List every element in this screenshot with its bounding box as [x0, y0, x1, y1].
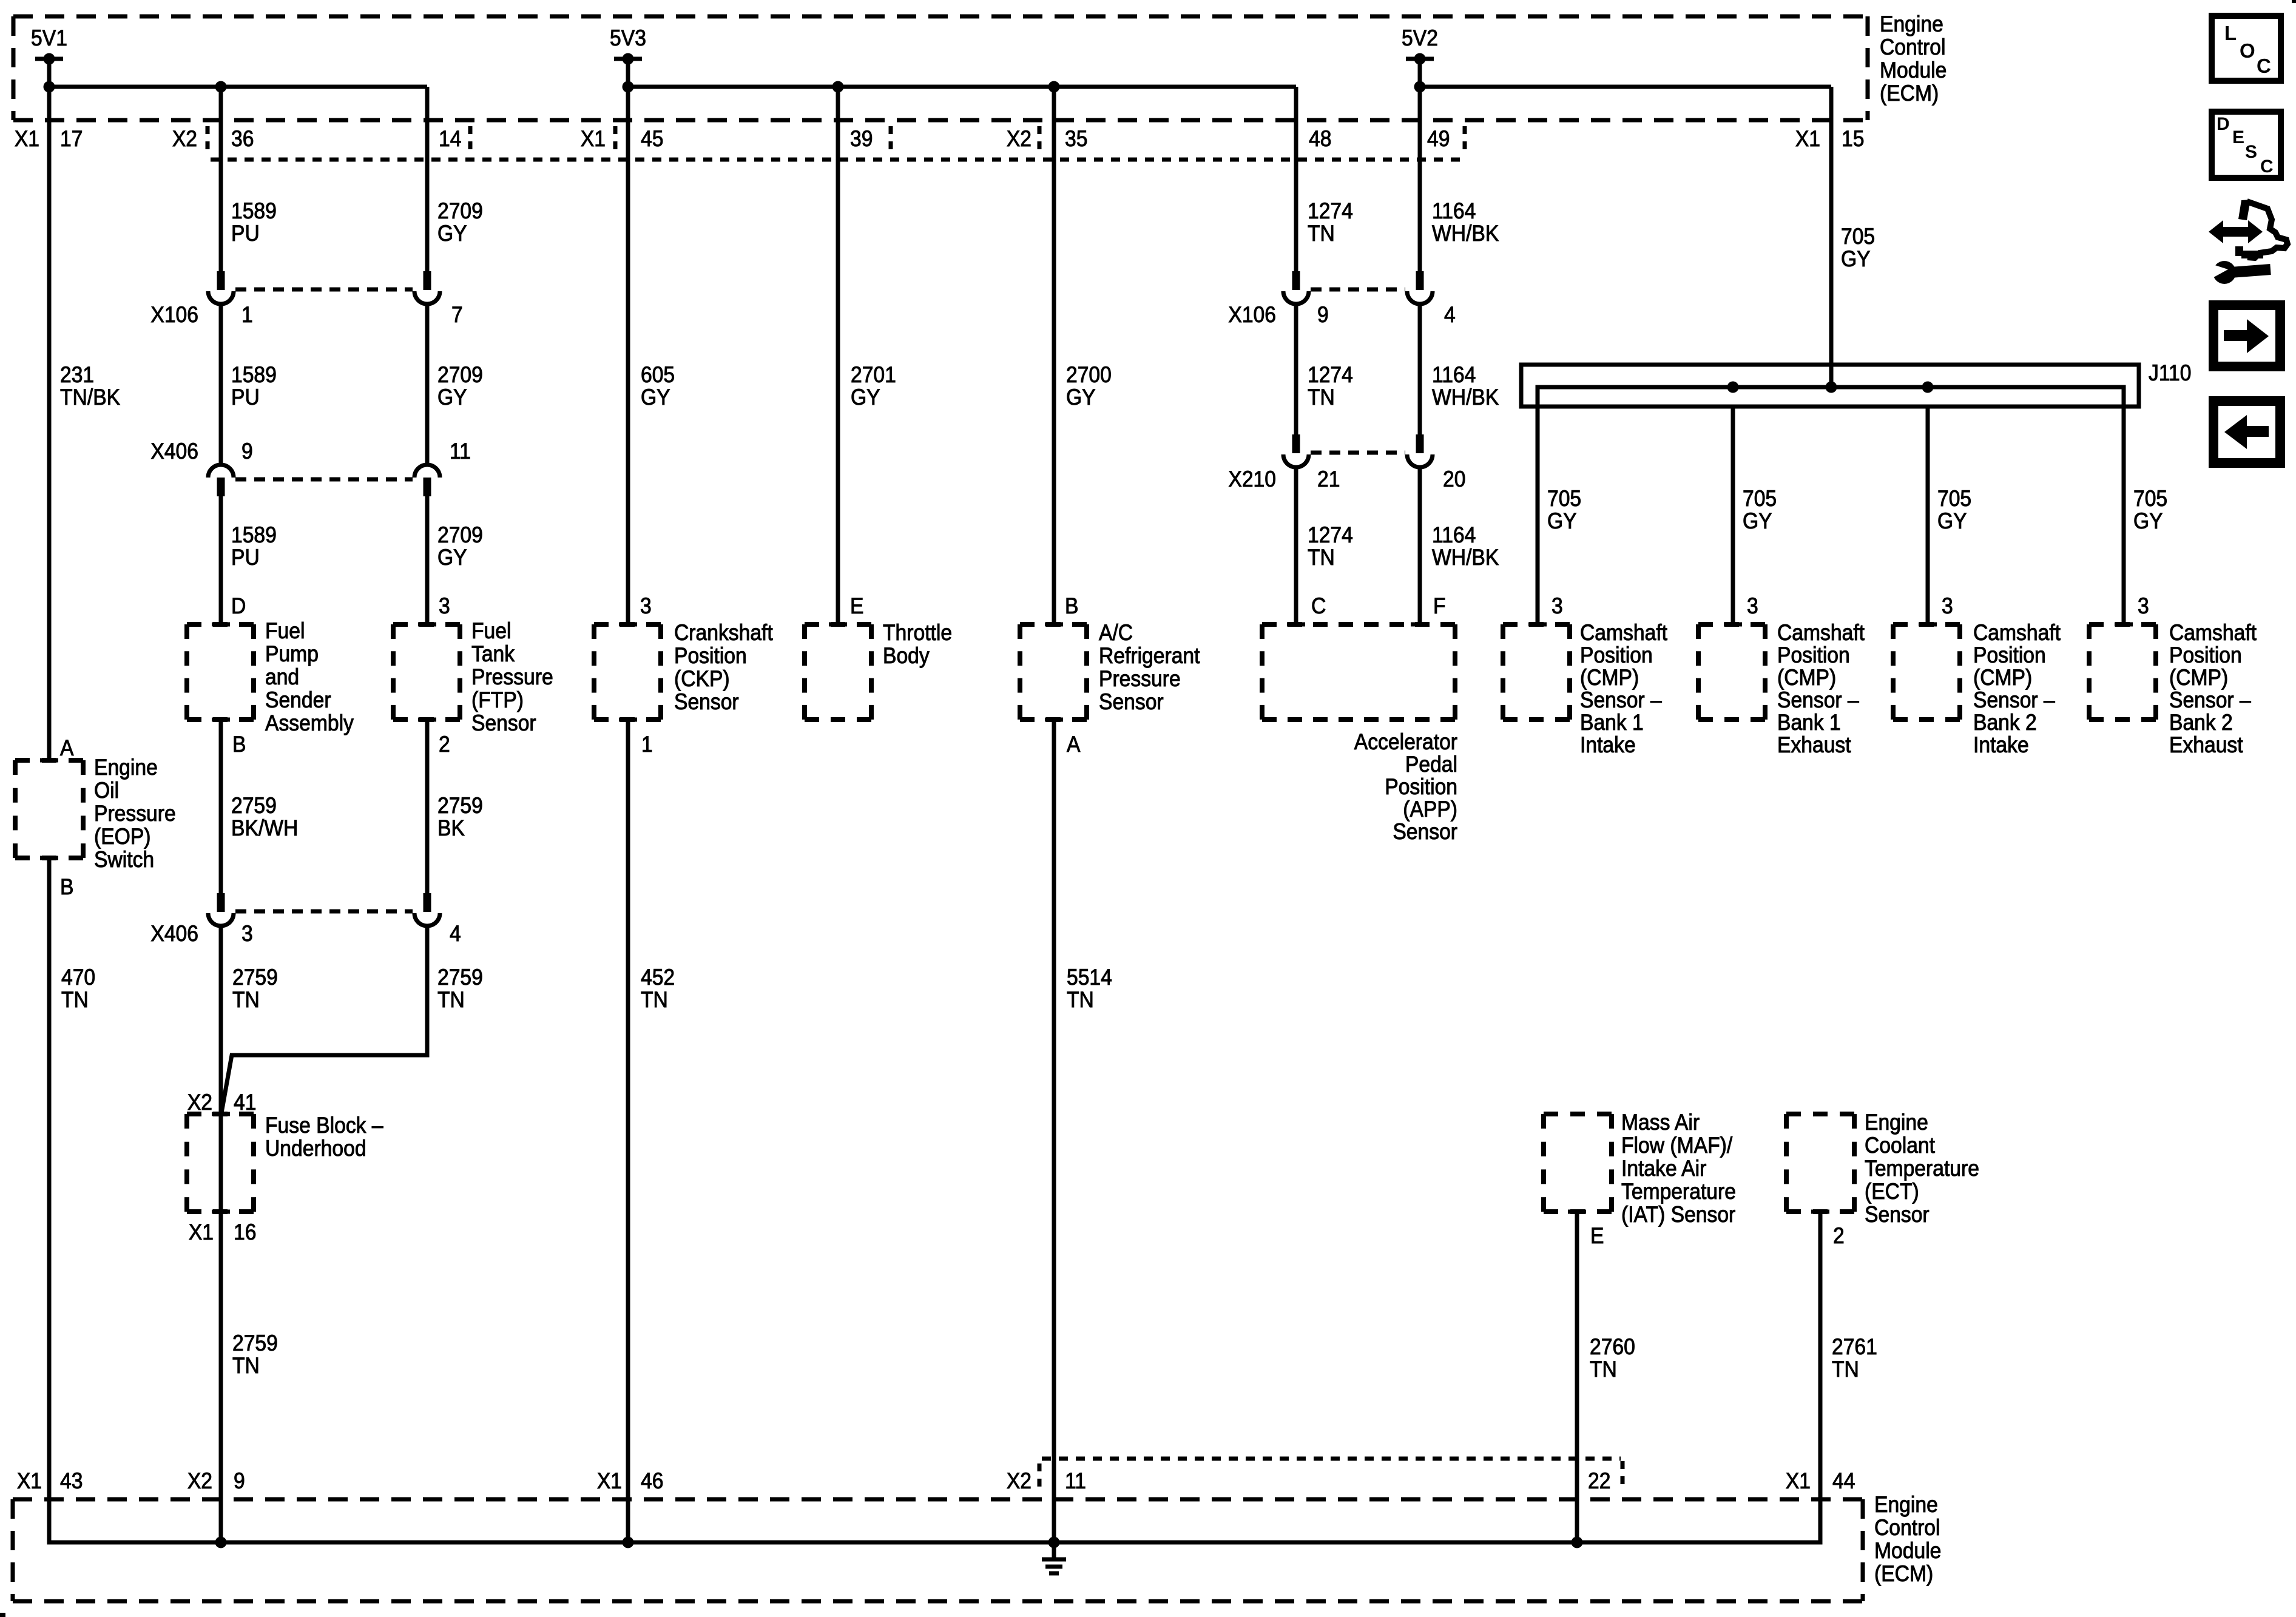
- svg-text:Position: Position: [1385, 775, 1457, 800]
- wire 705 GY (J110 to CMP sensor bank 1 exhaust): [1731, 407, 1735, 624]
- svg-text:Engine: Engine: [94, 755, 158, 780]
- svg-text:605: 605: [641, 363, 675, 388]
- svg-text:22: 22: [1588, 1469, 1610, 1494]
- svg-text:E: E: [2232, 127, 2244, 147]
- svg-text:GY: GY: [437, 385, 467, 410]
- svg-text:(EOP): (EOP): [94, 825, 151, 849]
- svg-text:Sensor: Sensor: [1099, 690, 1164, 715]
- svg-text:(CMP): (CMP): [1973, 666, 2032, 690]
- label 2709 GY (middle): [437, 363, 483, 410]
- svg-text:9: 9: [241, 439, 253, 464]
- svg-text:C: C: [1311, 594, 1326, 619]
- J110 internal bus: [1538, 382, 2124, 409]
- svg-text:GY: GY: [641, 385, 670, 410]
- svg-text:2701: 2701: [851, 363, 896, 388]
- label 705 GY (CMP sensor bank 2 intake): [1937, 487, 1971, 534]
- wire 231 TN/BK (ECM X1-17 to EOP A): [47, 87, 52, 760]
- ground symbol: [1042, 1542, 1066, 1573]
- throttle body dashed box: [805, 624, 871, 720]
- svg-text:TN: TN: [1832, 1357, 1859, 1382]
- connector X106 pin 7 label: [451, 303, 463, 328]
- svg-text:and: and: [265, 665, 299, 690]
- CMP sensor bank 2 intake label: [1973, 621, 2061, 758]
- wire 5514 TN (A/C A to ECM X2-11 and ground): [1052, 720, 1056, 1542]
- svg-text:(IAT) Sensor: (IAT) Sensor: [1621, 1203, 1735, 1227]
- svg-text:Exhaust: Exhaust: [2169, 733, 2243, 758]
- svg-text:36: 36: [231, 127, 254, 152]
- wire 1274 TN (X210-21 to APP C): [1294, 467, 1298, 624]
- svg-text:X1: X1: [15, 127, 39, 152]
- svg-text:Position: Position: [1973, 643, 2046, 668]
- svg-text:1589: 1589: [231, 199, 277, 224]
- svg-text:Control: Control: [1874, 1516, 1940, 1541]
- svg-text:TN: TN: [1067, 988, 1094, 1013]
- ECM connector label X2-36: [172, 127, 254, 152]
- splice pack J110 housing: [1521, 365, 2139, 407]
- svg-text:Crankshaft: Crankshaft: [674, 621, 773, 646]
- pin A label (A/C): [1067, 732, 1081, 757]
- svg-text:X1: X1: [189, 1220, 214, 1245]
- ECM connector label X2-35: [1007, 127, 1088, 152]
- svg-text:J110: J110: [2149, 361, 2191, 386]
- label 1164 WH/BK (upper): [1432, 199, 1499, 246]
- svg-text:F: F: [1433, 594, 1446, 619]
- svg-text:3: 3: [2138, 594, 2149, 619]
- wire 705 GY (J110 to CMP sensor bank 1 intake): [1536, 407, 1540, 624]
- svg-text:2: 2: [1833, 1224, 1845, 1249]
- svg-text:2709: 2709: [437, 523, 483, 548]
- svg-text:TN: TN: [437, 988, 465, 1013]
- ECM connector label X1-17: [15, 127, 83, 152]
- label 470 TN: [61, 965, 95, 1013]
- label 2701 GY: [851, 363, 896, 410]
- svg-text:7: 7: [451, 303, 463, 328]
- inline connector X106 pin 9: [1283, 271, 1309, 304]
- ECM connector label 14: [439, 127, 461, 152]
- label 705 GY (CMP sensor bank 1 intake): [1547, 487, 1581, 534]
- A/C pressure sensor label: [1099, 621, 1200, 715]
- svg-text:705: 705: [1743, 487, 1777, 511]
- wire 2759 TN (fuse X1-16 to ECM X2-9): [219, 1212, 223, 1542]
- EOP switch dashed box: [15, 760, 83, 858]
- label 1274 TN (middle): [1308, 363, 1353, 410]
- svg-text:Camshaft: Camshaft: [2169, 621, 2257, 646]
- label 1589 PU (upper): [231, 199, 277, 246]
- ECM connector short-dash line: [211, 158, 1465, 162]
- CMP sensor bank 2 intake dashed box: [1893, 624, 1960, 720]
- pin 2 label (ECT): [1833, 1224, 1845, 1249]
- pin A label (EOP): [60, 736, 74, 761]
- pin 2 label (FTP): [439, 732, 450, 757]
- icon DESC box: [2212, 112, 2281, 178]
- wire 470 TN (EOP B to ECM X1-43): [47, 858, 52, 1542]
- label 2761 TN: [1832, 1335, 1877, 1382]
- svg-text:X2: X2: [1007, 1469, 1032, 1494]
- svg-text:Sensor: Sensor: [674, 690, 739, 715]
- wire 2709 GY (ECM 14 to X106-7): [425, 87, 430, 271]
- svg-text:TN: TN: [232, 1354, 260, 1379]
- pin F label (APP): [1433, 594, 1446, 619]
- ECM connector label X2-11: [1007, 1469, 1086, 1494]
- svg-text:WH/BK: WH/BK: [1432, 385, 1499, 410]
- svg-text:Sensor –: Sensor –: [1777, 688, 1859, 713]
- svg-text:2709: 2709: [437, 363, 483, 388]
- wire 2709 GY (X406-11 to FTP 3): [425, 496, 430, 624]
- wire 1589 PU (X106-1 to X406-9): [219, 304, 223, 465]
- wire 705 GY (J110 to CMP sensor bank 2 exhaust): [2122, 407, 2126, 624]
- pin B label (fuel pump): [232, 732, 246, 757]
- svg-text:Module: Module: [1880, 58, 1947, 83]
- inline connector X106 pin 7: [414, 271, 440, 304]
- A/C pressure sensor dashed box: [1020, 624, 1087, 720]
- svg-text:Body: Body: [883, 644, 930, 669]
- svg-text:21: 21: [1317, 467, 1340, 492]
- 5V3 bus wire: [623, 81, 1297, 93]
- svg-text:Throttle: Throttle: [883, 621, 952, 646]
- svg-text:43: 43: [60, 1469, 83, 1494]
- svg-text:Pump: Pump: [265, 642, 319, 667]
- svg-text:Intake Air: Intake Air: [1621, 1156, 1707, 1181]
- svg-text:B: B: [1065, 594, 1078, 619]
- svg-text:A/C: A/C: [1099, 621, 1133, 646]
- svg-text:Sensor –: Sensor –: [1973, 688, 2055, 713]
- svg-text:Sensor: Sensor: [1865, 1203, 1930, 1227]
- svg-text:BK/WH: BK/WH: [231, 816, 298, 841]
- svg-text:(CMP): (CMP): [1580, 666, 1639, 690]
- CMP sensor bank 2 exhaust dashed box: [2089, 624, 2156, 720]
- connector X210 labels: [1228, 467, 1465, 492]
- label 705 GY (feed): [1841, 224, 1875, 272]
- svg-text:Flow (MAF)/: Flow (MAF)/: [1621, 1133, 1732, 1158]
- svg-text:Pedal: Pedal: [1405, 752, 1457, 777]
- wire 1589 PU (ECM X2-36 to X106-1): [219, 87, 223, 271]
- svg-text:3: 3: [640, 594, 652, 619]
- svg-text:Intake: Intake: [1580, 733, 1636, 758]
- svg-text:11: 11: [1065, 1469, 1086, 1494]
- inline connector X210 pin 20: [1407, 434, 1433, 467]
- svg-text:705: 705: [1547, 487, 1581, 511]
- wire 1164 WH/BK (ECM 49 to X106-4): [1418, 87, 1422, 271]
- svg-text:Pressure: Pressure: [94, 802, 176, 826]
- fuse block connector label X1-16: [189, 1220, 257, 1245]
- svg-text:E: E: [850, 594, 863, 619]
- CMP sensor bank 1 intake label: [1580, 621, 1667, 758]
- svg-text:1: 1: [241, 303, 253, 328]
- connector X106 right labels: [1228, 303, 1455, 328]
- wire 705 GY (ECM X1-15 to J110): [1829, 87, 1834, 387]
- svg-text:Pressure: Pressure: [471, 665, 553, 690]
- svg-text:TN: TN: [1590, 1357, 1617, 1382]
- svg-text:B: B: [60, 875, 73, 900]
- wire 1274 TN (ECM 48 to X106-9): [1294, 87, 1298, 271]
- svg-text:41: 41: [234, 1090, 256, 1115]
- svg-text:Accelerator: Accelerator: [1354, 730, 1457, 755]
- label 605 GY: [641, 363, 675, 410]
- label 2759 TN (right): [437, 965, 483, 1013]
- svg-text:X406: X406: [150, 439, 198, 464]
- svg-text:2759: 2759: [231, 794, 277, 819]
- fuel pump label: [265, 619, 354, 736]
- EOP switch label: [94, 755, 176, 873]
- svg-text:(FTP): (FTP): [471, 688, 524, 713]
- svg-text:3: 3: [241, 922, 253, 947]
- svg-text:49: 49: [1427, 127, 1450, 152]
- inline connector X406 pin 3: [208, 893, 234, 926]
- svg-text:Sender: Sender: [265, 688, 331, 713]
- svg-text:20: 20: [1443, 467, 1465, 492]
- svg-text:GY: GY: [2133, 509, 2163, 534]
- pin 3 label (FTP): [439, 594, 450, 619]
- svg-text:9: 9: [1317, 303, 1329, 328]
- ECM connector label X1-45: [581, 127, 664, 152]
- connector X106 right dashed link: [1311, 288, 1405, 292]
- svg-text:1274: 1274: [1308, 363, 1353, 388]
- connector X106 dashed link: [235, 288, 413, 292]
- svg-text:4: 4: [1444, 303, 1456, 328]
- svg-text:GY: GY: [1841, 247, 1871, 272]
- svg-text:35: 35: [1065, 127, 1087, 152]
- svg-text:GY: GY: [1937, 509, 1967, 534]
- ECM connector label X2-9: [187, 1469, 245, 1494]
- svg-text:PU: PU: [231, 545, 260, 570]
- label 2760 TN: [1590, 1335, 1635, 1382]
- svg-text:16: 16: [234, 1220, 256, 1245]
- label 1589 PU (middle): [231, 363, 277, 410]
- CKP sensor label: [674, 621, 773, 715]
- svg-text:3: 3: [439, 594, 450, 619]
- svg-text:X1: X1: [1786, 1469, 1811, 1494]
- svg-text:Bank 2: Bank 2: [2169, 711, 2233, 735]
- svg-text:O: O: [2240, 39, 2255, 62]
- svg-text:1274: 1274: [1308, 199, 1353, 224]
- icon forward arrow box: [2213, 305, 2280, 366]
- CMP sensor bank 1 exhaust label: [1777, 621, 1865, 758]
- APP sensor label: [1354, 730, 1457, 845]
- 5V reference 5V1: [31, 26, 67, 87]
- ECM connector label 39: [850, 127, 873, 152]
- svg-text:5V3: 5V3: [610, 26, 646, 51]
- svg-text:14: 14: [439, 127, 461, 152]
- svg-text:X1: X1: [581, 127, 606, 152]
- connector X406 pin 11 label: [450, 439, 471, 464]
- svg-text:(ECT): (ECT): [1865, 1180, 1919, 1204]
- svg-text:Sensor –: Sensor –: [2169, 688, 2251, 713]
- 5V reference 5V3: [610, 26, 646, 87]
- wire 2759 TN (X406-4 jog to fuse block): [221, 926, 427, 1113]
- label 2759 BK/WH: [231, 794, 298, 841]
- svg-text:4: 4: [450, 922, 461, 947]
- ECT sensor dashed box: [1786, 1114, 1854, 1212]
- svg-text:TN: TN: [1308, 385, 1335, 410]
- label 2759 TN (left): [232, 965, 278, 1013]
- wire 2759 BK/WH (fuel pump B to X406-3): [219, 720, 223, 893]
- fuse block connector label X2-41: [187, 1090, 257, 1115]
- svg-text:Position: Position: [674, 644, 747, 669]
- svg-text:X1: X1: [17, 1469, 42, 1494]
- svg-text:X1: X1: [1795, 127, 1820, 152]
- svg-text:39: 39: [850, 127, 873, 152]
- inline connector X210 pin 21: [1283, 434, 1309, 467]
- svg-text:Tank: Tank: [471, 642, 515, 667]
- svg-text:(APP): (APP): [1403, 797, 1457, 822]
- svg-text:1: 1: [641, 732, 653, 757]
- MAF/IAT sensor label: [1621, 1110, 1736, 1227]
- ECM connector label X1-15: [1795, 127, 1865, 152]
- svg-text:Assembly: Assembly: [265, 711, 354, 736]
- ECM connector label 48: [1309, 127, 1331, 152]
- svg-text:705: 705: [1841, 224, 1875, 249]
- svg-text:X1: X1: [597, 1469, 622, 1494]
- svg-text:Sensor: Sensor: [471, 711, 536, 736]
- svg-text:2709: 2709: [437, 199, 483, 224]
- svg-text:TN: TN: [641, 988, 668, 1013]
- wire 2760 TN (MAF E to ECM 22): [1575, 1212, 1579, 1542]
- wire 2700 GY (ECM X2-35 to A/C B): [1052, 87, 1056, 624]
- svg-text:D: D: [2217, 114, 2230, 134]
- FTP sensor label: [471, 619, 553, 736]
- svg-text:Sensor –: Sensor –: [1580, 688, 1662, 713]
- svg-text:Camshaft: Camshaft: [1973, 621, 2061, 646]
- svg-text:TN/BK: TN/BK: [60, 385, 121, 410]
- svg-text:45: 45: [641, 127, 663, 152]
- svg-text:17: 17: [60, 127, 83, 152]
- pin 3 label (CMP sensor bank 1 intake): [1551, 594, 1563, 619]
- svg-text:(CMP): (CMP): [2169, 666, 2228, 690]
- svg-text:Fuse Block –: Fuse Block –: [265, 1113, 383, 1138]
- svg-text:X2: X2: [187, 1090, 212, 1115]
- svg-text:Temperature: Temperature: [1865, 1156, 1979, 1181]
- inline connector X106 pin 4: [1407, 271, 1433, 304]
- svg-text:Engine: Engine: [1865, 1110, 1928, 1135]
- svg-text:GY: GY: [851, 385, 880, 410]
- pin 3 label (CMP sensor bank 1 exhaust): [1747, 594, 1758, 619]
- svg-text:2759: 2759: [232, 965, 278, 990]
- 5V1 bus wire: [44, 81, 428, 93]
- label 2759 BK: [437, 794, 483, 841]
- ECM bottom label: [1874, 1493, 1941, 1587]
- 5V reference 5V2: [1402, 26, 1438, 87]
- label 705 GY (CMP sensor bank 1 exhaust): [1743, 487, 1777, 534]
- ECM connector label X1-44: [1786, 1469, 1855, 1494]
- ECM bottom connector short-dash line: [1042, 1457, 1621, 1461]
- svg-text:B: B: [232, 732, 246, 757]
- svg-text:Bank 1: Bank 1: [1777, 711, 1841, 735]
- ECM connector label X1-46: [597, 1469, 664, 1494]
- svg-text:(ECM): (ECM): [1874, 1562, 1933, 1587]
- svg-text:X106: X106: [150, 303, 198, 328]
- label 2709 GY (upper): [437, 199, 483, 246]
- label 705 GY (CMP sensor bank 2 exhaust): [2133, 487, 2167, 534]
- fuel pump dashed box: [187, 624, 254, 720]
- svg-text:C: C: [2260, 157, 2274, 177]
- svg-text:Engine: Engine: [1874, 1493, 1938, 1517]
- label 1164 WH/BK (middle): [1432, 363, 1499, 410]
- svg-text:L: L: [2224, 22, 2237, 44]
- ECM internal ground bus: [49, 1537, 1820, 1548]
- svg-text:GY: GY: [437, 545, 467, 570]
- connector X406 lower labels: [150, 922, 252, 947]
- svg-text:Position: Position: [2169, 643, 2242, 668]
- svg-text:2759: 2759: [437, 794, 483, 819]
- connector X210 dashed link: [1311, 451, 1405, 455]
- pin 3 label (CMP sensor bank 2 intake): [1942, 594, 1953, 619]
- svg-text:Temperature: Temperature: [1621, 1180, 1736, 1204]
- fuse block dashed box: [187, 1114, 254, 1212]
- svg-text:(CMP): (CMP): [1777, 666, 1836, 690]
- svg-text:3: 3: [1551, 594, 1563, 619]
- inline connector X406 pin 4: [414, 893, 440, 926]
- svg-text:X106: X106: [1228, 303, 1276, 328]
- svg-text:Exhaust: Exhaust: [1777, 733, 1851, 758]
- ECM top label: [1880, 12, 1947, 106]
- label 231 TN/BK: [60, 363, 121, 410]
- pin 3 label (CMP sensor bank 2 exhaust): [2138, 594, 2149, 619]
- svg-text:PU: PU: [231, 221, 260, 246]
- svg-text:GY: GY: [437, 221, 467, 246]
- connector X106 left labels: [150, 303, 252, 328]
- svg-text:1164: 1164: [1432, 363, 1476, 388]
- CMP sensor bank 2 exhaust label: [2169, 621, 2257, 758]
- pin E label (MAF): [1590, 1224, 1604, 1249]
- label 1274 TN (upper): [1308, 199, 1353, 246]
- svg-text:Intake: Intake: [1973, 733, 2029, 758]
- svg-text:Refrigerant: Refrigerant: [1099, 644, 1200, 669]
- wire 605 GY (ECM X1-45 to CKP 3): [626, 87, 630, 624]
- ECT sensor label: [1865, 1110, 1979, 1227]
- pin D label (fuel pump): [231, 594, 246, 619]
- svg-text:Control: Control: [1880, 35, 1946, 60]
- svg-text:TN: TN: [232, 988, 260, 1013]
- label 2709 GY (lower): [437, 523, 483, 570]
- connector X406 lower dashed link: [235, 910, 413, 914]
- svg-text:GY: GY: [1743, 509, 1772, 534]
- connector X406 upper dashed link: [235, 478, 413, 482]
- icon back arrow box: [2213, 401, 2280, 463]
- svg-text:WH/BK: WH/BK: [1432, 221, 1499, 246]
- svg-text:PU: PU: [231, 385, 260, 410]
- svg-text:Camshaft: Camshaft: [1777, 621, 1865, 646]
- svg-text:2700: 2700: [1066, 363, 1112, 388]
- svg-text:A: A: [60, 736, 74, 761]
- svg-text:Underhood: Underhood: [265, 1136, 366, 1161]
- label J110: [2149, 361, 2191, 386]
- svg-text:2759: 2759: [437, 965, 483, 990]
- svg-text:705: 705: [2133, 487, 2167, 511]
- svg-text:231: 231: [60, 363, 94, 388]
- CMP sensor bank 1 intake dashed box: [1503, 624, 1570, 720]
- svg-text:2761: 2761: [1832, 1335, 1877, 1360]
- svg-text:2: 2: [439, 732, 450, 757]
- svg-text:46: 46: [641, 1469, 663, 1494]
- label 1274 TN (lower): [1308, 523, 1353, 570]
- svg-text:15: 15: [1842, 127, 1864, 152]
- svg-text:TN: TN: [1308, 221, 1335, 246]
- svg-text:5V1: 5V1: [31, 26, 67, 51]
- wire 1274 TN (X106-9 to X210-21): [1294, 304, 1298, 434]
- ECM bottom connector ticks: [1039, 1461, 1622, 1494]
- ECM connector label X1-43: [17, 1469, 83, 1494]
- ECM connector label 22: [1588, 1469, 1610, 1494]
- icon LOC box: [2212, 16, 2281, 81]
- svg-text:705: 705: [1937, 487, 1971, 511]
- svg-text:470: 470: [61, 965, 95, 990]
- svg-text:S: S: [2245, 142, 2257, 162]
- label 452 TN: [641, 965, 675, 1013]
- svg-text:TN: TN: [61, 988, 89, 1013]
- svg-text:Module: Module: [1874, 1539, 1941, 1564]
- wire 1164 WH/BK (X210-20 to APP F): [1418, 467, 1422, 624]
- svg-text:2759: 2759: [232, 1331, 278, 1356]
